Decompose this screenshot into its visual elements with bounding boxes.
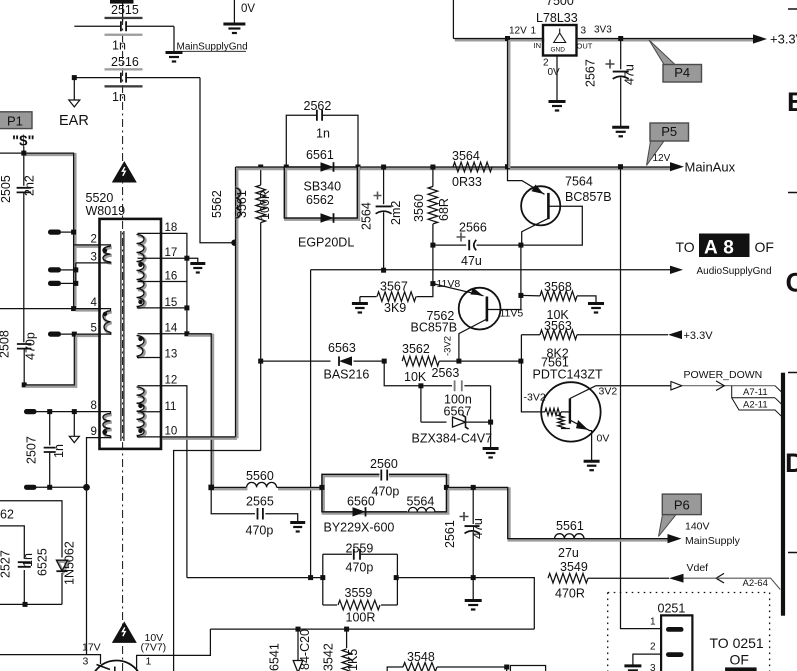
- svg-text:2565: 2565: [246, 495, 274, 509]
- svg-text:3564: 3564: [452, 149, 480, 163]
- svg-text:A2-11: A2-11: [743, 400, 768, 411]
- svg-text:P6: P6: [674, 498, 690, 513]
- partial label (cut) 62: [0, 508, 14, 522]
- svg-text:1K5: 1K5: [346, 649, 360, 671]
- svg-text:11: 11: [165, 401, 177, 413]
- svg-text:2566: 2566: [459, 221, 487, 235]
- resistor 3564 0R33: [452, 149, 492, 189]
- svg-text:OUT: OUT: [577, 42, 593, 51]
- svg-text:17V: 17V: [82, 642, 101, 654]
- resistor 3559 100R: [338, 586, 380, 625]
- svg-text:1N5062: 1N5062: [63, 541, 77, 585]
- grid letter B: [787, 87, 797, 117]
- svg-text:2n2: 2n2: [0, 179, 2, 200]
- svg-text:47u: 47u: [471, 518, 485, 539]
- ground (6567): [483, 449, 499, 458]
- svg-text:C: C: [786, 268, 797, 298]
- wire pin 3 with stubs: [48, 263, 100, 286]
- svg-text:0R33: 0R33: [452, 175, 482, 189]
- svg-text:0V: 0V: [597, 433, 610, 445]
- warning symbol (lower): [112, 621, 137, 643]
- svg-text:1n: 1n: [52, 444, 66, 458]
- net +3.3V (top): [753, 32, 797, 47]
- ground (0251 pin 2): [624, 654, 661, 671]
- capacitor 2516 1n (Y-cap): [74, 55, 200, 104]
- svg-text:1: 1: [146, 656, 152, 668]
- svg-text:3V2: 3V2: [599, 386, 618, 398]
- diode 6541 BZX384-C20: [268, 629, 313, 671]
- svg-text:100R: 100R: [346, 611, 376, 625]
- wire pin 9: [87, 438, 100, 488]
- svg-text:3561: 3561: [235, 190, 249, 218]
- svg-text:4: 4: [91, 297, 98, 309]
- svg-text:5: 5: [91, 323, 97, 335]
- svg-text:AudioSupplyGnd: AudioSupplyGnd: [697, 266, 772, 277]
- svg-text:1n: 1n: [21, 553, 35, 567]
- capacitor 2505 2n2: [0, 153, 37, 342]
- transformer winding pins 14-13: [137, 334, 162, 358]
- svg-text:GND: GND: [551, 47, 566, 54]
- svg-text:EGP20DL: EGP20DL: [298, 236, 354, 250]
- transistor 7561 PDTC143ZT: [521, 356, 617, 462]
- diode 6525 1N5062: [36, 541, 77, 585]
- wire 5562 line to 12V rail (highlighted): [236, 167, 237, 438]
- wire AudioSupplyGnd: [311, 266, 772, 277]
- capacitor 2560 470p: [370, 457, 399, 499]
- svg-text:BZX384-C4V7: BZX384-C4V7: [412, 432, 493, 446]
- module edge bar: [781, 373, 785, 616]
- svg-text:P4: P4: [674, 65, 690, 80]
- svg-text:2527: 2527: [0, 550, 13, 578]
- svg-text:3560: 3560: [412, 194, 426, 222]
- box 2527/6525: [0, 501, 62, 607]
- wire pin 4 row: [0, 309, 101, 310]
- svg-text:L78L33: L78L33: [536, 11, 578, 25]
- svg-text:1: 1: [650, 617, 656, 628]
- svg-text:47u: 47u: [623, 64, 637, 85]
- wire bottom bus: [137, 627, 535, 671]
- svg-text:3568: 3568: [544, 280, 572, 294]
- node 11V8: [433, 245, 461, 290]
- transformer primary winding pins 2-3: [100, 245, 112, 263]
- resistor 3542 1K5: [322, 629, 361, 671]
- svg-text:470R: 470R: [555, 587, 585, 601]
- svg-text:15: 15: [165, 297, 178, 309]
- resistor 3562 10K: [382, 342, 524, 384]
- svg-text:470p: 470p: [346, 561, 374, 575]
- svg-text:+3.3V: +3.3V: [684, 330, 714, 342]
- partial label 2n2 (cut at left edge): [0, 179, 2, 200]
- capacitor 2567 47u (electrolytic): [584, 39, 637, 128]
- svg-text:6525: 6525: [36, 548, 50, 576]
- chassis arrow (pin 8): [69, 412, 79, 443]
- svg-text:3559: 3559: [345, 586, 373, 600]
- svg-text:3549: 3549: [560, 560, 588, 574]
- svg-text:2507: 2507: [25, 436, 39, 464]
- wire 3561 bottom to off-page bottom: [174, 451, 261, 671]
- svg-text:-3V2: -3V2: [524, 392, 546, 404]
- svg-text:68R: 68R: [437, 198, 451, 221]
- svg-text:-3V2: -3V2: [443, 336, 454, 356]
- svg-text:3: 3: [83, 656, 89, 668]
- svg-text:3567: 3567: [380, 280, 408, 294]
- svg-text:6541: 6541: [268, 643, 282, 671]
- svg-text:2564: 2564: [360, 202, 374, 230]
- zener diode 6567 BZX384-C4V7: [412, 386, 494, 449]
- transformer winding pins 12-10: [137, 386, 162, 437]
- svg-text:5562: 5562: [210, 190, 224, 218]
- isolation barrier dash-dot line: [122, 0, 124, 671]
- resistor 3561 100R: [235, 165, 272, 451]
- svg-text:P1: P1: [7, 114, 23, 129]
- svg-text:D: D: [785, 448, 797, 478]
- transistor 7562 BC857B (PNP): [411, 284, 524, 362]
- svg-text:PDTC143ZT: PDTC143ZT: [533, 368, 604, 382]
- svg-text:(7V7): (7V7): [141, 642, 167, 654]
- wire pin 10 to 5562 (highlighted): [161, 437, 237, 438]
- capacitor 2566 47u (electrolytic): [433, 221, 521, 269]
- inductor 5561: [553, 519, 585, 560]
- ground (3567): [352, 297, 368, 313]
- wire 12V rail (highlighted): [236, 164, 672, 169]
- svg-text:140V: 140V: [685, 521, 710, 533]
- reference TO 0251 OF: [710, 635, 764, 671]
- svg-text:7564: 7564: [565, 175, 593, 189]
- ground (7561 emitter): [584, 461, 600, 470]
- ground (3568): [588, 304, 604, 313]
- svg-text:A8: A8: [704, 238, 739, 259]
- labels 17V / 3 / 1 / 10V (7V7): [82, 632, 166, 668]
- svg-text:2: 2: [650, 642, 656, 653]
- svg-text:2563: 2563: [432, 366, 460, 380]
- node EAR: [59, 75, 89, 129]
- transformer secondary winding pins 18-15: [137, 233, 162, 308]
- svg-text:6563: 6563: [328, 341, 356, 355]
- svg-text:2567: 2567: [584, 59, 598, 87]
- resistor 3563 8K2: [521, 319, 668, 361]
- svg-text:14: 14: [165, 323, 178, 335]
- transformer winding pins 8-9: [100, 412, 112, 438]
- capacitor 2565 470p: [211, 487, 298, 537]
- box 2559/3559: [320, 554, 398, 605]
- ground 0V (top): [223, 0, 255, 33]
- diode 6562 EGP20DL: [298, 193, 354, 250]
- svg-text:18: 18: [165, 222, 178, 234]
- svg-text:TO: TO: [676, 239, 695, 255]
- resistor 3549 470R: [548, 560, 669, 601]
- svg-text:BC857B: BC857B: [565, 190, 612, 204]
- svg-text:1n: 1n: [112, 39, 126, 53]
- connector tag P1: [0, 112, 32, 129]
- resistor 3560 68R: [412, 167, 451, 248]
- svg-text:1n: 1n: [112, 90, 126, 104]
- svg-text:2559: 2559: [346, 542, 374, 556]
- net MainAux: [670, 160, 736, 175]
- svg-text:3: 3: [91, 251, 97, 263]
- transformer 5520 W8019 body: [86, 191, 162, 449]
- svg-text:OF: OF: [755, 239, 774, 255]
- svg-text:0V: 0V: [241, 3, 255, 15]
- capacitor 2515 1n (Y-cap): [74, 3, 174, 53]
- svg-text:1n: 1n: [316, 127, 330, 141]
- svg-text:5520: 5520: [86, 191, 114, 205]
- net MainSupply 140V: [668, 521, 741, 548]
- svg-text:3: 3: [650, 663, 656, 671]
- svg-text:3562: 3562: [402, 342, 430, 356]
- wire-stub to $ net: [48, 230, 76, 235]
- svg-text:W8019: W8019: [86, 204, 126, 218]
- wire pin 14 to 5560 (highlighted): [161, 334, 213, 489]
- capacitor 2563 100n: [384, 361, 490, 406]
- ground (2565): [290, 523, 305, 532]
- svg-text:B: B: [787, 87, 797, 117]
- diode 6560 BY229X-600: [324, 495, 395, 535]
- svg-text:0251: 0251: [658, 602, 686, 616]
- capacitor 2507 1n: [25, 412, 67, 488]
- svg-text:5560: 5560: [246, 469, 274, 483]
- svg-text:BAS216: BAS216: [324, 368, 370, 382]
- net +3.3V (mid): [668, 330, 713, 342]
- wire base row (bottom): [0, 655, 101, 664]
- svg-text:OF: OF: [730, 652, 749, 668]
- svg-text:6560: 6560: [347, 495, 375, 509]
- wire 5560 row (highlighted): [208, 485, 323, 491]
- wire 7564 node down to 7562 base: [518, 245, 523, 298]
- wire POWER_DOWN: [596, 369, 775, 391]
- diode 6561 SB340: [304, 148, 342, 194]
- svg-text:MainAux: MainAux: [685, 160, 736, 175]
- svg-text:BY229X-600: BY229X-600: [324, 521, 395, 535]
- svg-text:62: 62: [0, 508, 14, 522]
- dotted enclosure (0251): [608, 593, 770, 671]
- svg-text:3548: 3548: [407, 650, 435, 664]
- svg-text:7500: 7500: [546, 0, 574, 8]
- capacitor 2562 1n: [286, 99, 358, 167]
- ground (2561/Vdef row): [465, 578, 482, 610]
- svg-text:IN: IN: [534, 41, 542, 50]
- svg-text:A2-64: A2-64: [743, 578, 768, 589]
- svg-text:10K: 10K: [404, 370, 427, 384]
- net "$": [12, 133, 35, 150]
- ground (2567): [612, 127, 629, 136]
- svg-text:2: 2: [91, 233, 97, 245]
- grid letter C: [786, 268, 797, 298]
- svg-text:9: 9: [91, 426, 97, 438]
- svg-text:11V5: 11V5: [500, 308, 524, 320]
- reference TO A8 OF: [676, 234, 774, 259]
- svg-text:2515: 2515: [111, 3, 139, 17]
- svg-text:BC857B: BC857B: [411, 321, 458, 335]
- wire Vdef row (right): [396, 575, 534, 629]
- wire pins 18/17/16/15 to ground bus: [161, 233, 189, 336]
- svg-text:+3.3V: +3.3V: [770, 32, 797, 47]
- wire pin 8 row: [24, 409, 100, 414]
- svg-text:3542: 3542: [322, 643, 336, 671]
- svg-text:POWER_DOWN: POWER_DOWN: [684, 369, 763, 381]
- wire hot return row: [24, 484, 90, 491]
- svg-text:47u: 47u: [461, 254, 482, 268]
- inductor 5562: [210, 188, 241, 218]
- ground MainSupplyGnd: [166, 26, 248, 61]
- capacitor 2561 47u (electrolytic): [443, 487, 485, 577]
- svg-text:3K9: 3K9: [384, 301, 406, 315]
- svg-text:3563: 3563: [544, 319, 572, 333]
- capacitor 2514 remnant (cut at top): [110, 0, 134, 21]
- inductor 5560: [246, 469, 277, 487]
- svg-text:11V8: 11V8: [437, 278, 461, 290]
- svg-text:6567: 6567: [444, 405, 472, 419]
- svg-text:2516: 2516: [111, 55, 139, 69]
- diode box outline (6561/6562): [284, 167, 358, 219]
- svg-text:6561: 6561: [306, 148, 334, 162]
- diode box 6560/5564/2560: [319, 474, 449, 513]
- wire pin 9 node down: [86, 487, 88, 654]
- wire-stub pin 5: [48, 332, 101, 337]
- capacitor 2527 1n: [0, 550, 35, 578]
- svg-text:5564: 5564: [407, 495, 435, 509]
- resistor 3567 3K9: [360, 280, 436, 316]
- transformer winding pins 4-5: [100, 309, 112, 335]
- inductor 5564: [407, 495, 436, 512]
- svg-text:TO 0251: TO 0251: [710, 635, 764, 651]
- page reference A7-11 / A2-11: [732, 386, 783, 418]
- svg-text:3: 3: [581, 26, 587, 37]
- svg-text:12V: 12V: [509, 26, 527, 37]
- svg-text:2m2: 2m2: [389, 201, 403, 225]
- grid letter D: [785, 448, 797, 478]
- diode 6563 BAS216: [261, 341, 385, 382]
- wire pin 12 down: [161, 386, 187, 578]
- svg-text:13: 13: [165, 348, 178, 360]
- transistor 7520 (partial): [90, 661, 143, 671]
- svg-text:3V3: 3V3: [594, 25, 612, 36]
- svg-text:P5: P5: [661, 124, 677, 139]
- warning symbol (upper): [112, 161, 137, 183]
- capacitor 2508 470p: [0, 330, 77, 387]
- wire 2516 right lead down to node: [200, 78, 238, 246]
- wire 12V input (highlighted): [453, 0, 544, 168]
- svg-text:MainSupply: MainSupply: [685, 535, 741, 547]
- wire MainSupply (highlighted): [446, 485, 669, 540]
- wire 3V3 output (highlighted): [577, 36, 755, 41]
- ground (regulator pin 2): [549, 56, 566, 111]
- svg-text:16: 16: [165, 270, 178, 282]
- svg-text:27u: 27u: [558, 546, 579, 560]
- svg-text:84-C20: 84-C20: [298, 629, 312, 670]
- wire 12V to connector 0251: [621, 167, 662, 629]
- connector tag P5: [647, 123, 689, 166]
- svg-text:470p: 470p: [24, 332, 38, 360]
- svg-text:8: 8: [91, 400, 97, 412]
- svg-text:2562: 2562: [304, 99, 332, 113]
- svg-text:0V: 0V: [548, 67, 561, 78]
- resistor 3548: [387, 650, 545, 671]
- connector tag P4: [649, 40, 702, 82]
- connector 0251: [650, 602, 692, 671]
- svg-text:2561: 2561: [443, 520, 457, 548]
- svg-text:2508: 2508: [0, 330, 12, 358]
- wire Vdef row (left): [187, 575, 323, 580]
- resistor 3568 10K: [521, 280, 596, 322]
- capacitor 2559 470p: [346, 542, 374, 575]
- wire $ feed to pins 2/4: [0, 147, 101, 312]
- svg-text:2n2: 2n2: [23, 175, 37, 196]
- svg-text:10: 10: [165, 426, 178, 438]
- capacitor 2564 2m2 (electrolytic): [360, 167, 404, 270]
- svg-text:1: 1: [531, 26, 537, 37]
- svg-text:SB340: SB340: [304, 180, 342, 194]
- transistor 7564 BC857B (PNP): [508, 167, 612, 248]
- svg-text:6562: 6562: [306, 193, 334, 207]
- wire AudioSupplyGnd branch down: [310, 270, 312, 578]
- svg-text:5561: 5561: [556, 519, 584, 533]
- svg-text:17: 17: [165, 247, 178, 259]
- transformer pin numbers: [91, 222, 178, 438]
- svg-text:2560: 2560: [370, 457, 398, 471]
- net Vdef: [669, 562, 780, 590]
- svg-text:100R: 100R: [258, 190, 272, 220]
- svg-text:Vdef: Vdef: [687, 562, 709, 574]
- connector tag P6: [659, 494, 702, 536]
- svg-text:EAR: EAR: [59, 113, 89, 129]
- svg-text:470p: 470p: [372, 485, 400, 499]
- voltage regulator 7500 L78L33: [509, 0, 612, 78]
- grid tick marks: [788, 9, 797, 553]
- svg-text:470p: 470p: [246, 524, 274, 538]
- svg-text:A7-11: A7-11: [743, 387, 768, 398]
- svg-text:12: 12: [165, 375, 178, 387]
- svg-text:12V: 12V: [653, 153, 671, 164]
- ground (pin 17): [187, 258, 205, 272]
